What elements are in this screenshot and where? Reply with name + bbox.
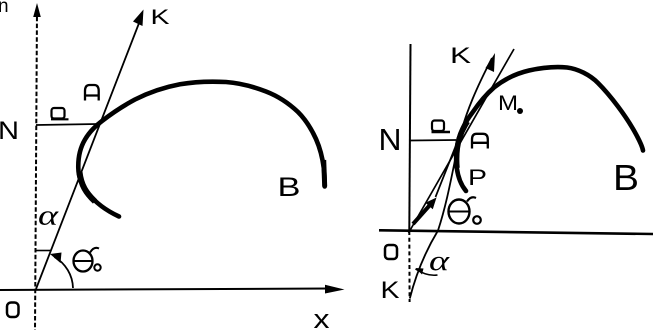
svg-text:B: B: [613, 157, 639, 198]
x-axis: [0, 289, 330, 291]
x-axis (right figure): [379, 230, 653, 234]
origin label 0: [7, 303, 19, 318]
svg-text:K: K: [381, 277, 400, 304]
label theta0 (right): [448, 197, 481, 224]
svg-text:N: N: [379, 122, 402, 157]
n-axis (dashed vertical): [35, 10, 37, 330]
svg-text:K: K: [151, 6, 170, 29]
tangent K arrowhead: [486, 53, 496, 72]
label a: [51, 108, 69, 119]
svg-text:N: N: [0, 117, 19, 145]
curve (right, thick): [456, 67, 643, 191]
bold angle arrow: [413, 206, 430, 225]
chord segment from arrow tip toward A: [436, 142, 458, 198]
theta0 arc: [55, 257, 74, 288]
svg-text:n: n: [0, 0, 9, 17]
svg-text:α: α: [429, 246, 451, 277]
line K arrowhead: [133, 10, 144, 27]
label theta0: [73, 248, 101, 272]
tangent line K: [410, 58, 492, 299]
y-axis below origin (dashed): [408, 231, 410, 302]
curve AB right-end thickening: [324, 160, 325, 187]
curve AB (thick): [78, 82, 324, 217]
svg-text:M: M: [498, 92, 518, 115]
N-line (horizontal at level a): [36, 124, 98, 125]
svg-text:K: K: [450, 43, 471, 68]
y-axis (right figure): [409, 44, 410, 231]
n-axis arrowhead: [33, 3, 41, 17]
alpha arc (right): [416, 269, 438, 275]
svg-text:α: α: [38, 201, 60, 232]
theta0 arc arrowhead: [50, 253, 62, 264]
N-line (right): [410, 139, 456, 142]
x-axis arrowhead: [325, 285, 345, 294]
line K: [36, 18, 141, 289]
label A: [85, 85, 99, 101]
svg-text:B: B: [278, 172, 301, 202]
label a (right): [432, 121, 451, 133]
alpha tick: [36, 250, 51, 252]
svg-text:x: x: [314, 304, 331, 330]
label A (right): [472, 134, 488, 149]
curve AB hook thickening: [80, 172, 96, 202]
secant line through O: [409, 49, 515, 233]
curve thickening near A (right): [457, 122, 468, 169]
origin label 0 (right): [385, 245, 397, 259]
svg-text:P: P: [468, 165, 487, 190]
